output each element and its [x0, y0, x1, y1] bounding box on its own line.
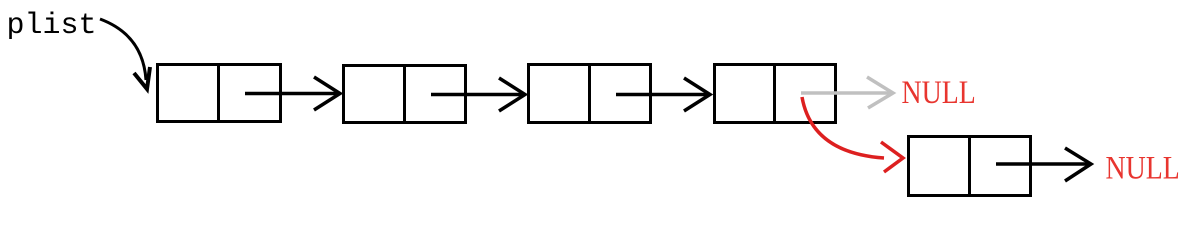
node 2 box: [344, 66, 466, 123]
node 3 box: [529, 65, 651, 123]
node 4 divider: [773, 65, 776, 123]
svg-text:NULL: NULL: [1106, 149, 1180, 186]
node 1 box: [158, 65, 281, 122]
wire: gray arrow node4 to NULL: [801, 91, 892, 95]
wire: arrow node3 to node4: [616, 93, 710, 97]
svg-text:NULL: NULL: [902, 74, 976, 111]
wire: arrow node5 to NULL: [996, 162, 1091, 166]
node 4 box: [715, 65, 836, 123]
node 1 divider: [217, 65, 220, 122]
wire: arrow node2 to node3: [431, 93, 525, 97]
node 5 box: [909, 137, 1031, 196]
node 2 divider: [403, 66, 406, 123]
arrowhead of plist arrow: [134, 67, 150, 89]
node 5 divider: [968, 137, 971, 196]
svg-text:plist: plist: [7, 9, 97, 43]
wire: red curved arrow node4 to node5: [802, 97, 884, 158]
wire: curved arrow from plist to node 1: [100, 19, 146, 80]
wire: arrow node1 to node2: [245, 92, 340, 96]
node 3 divider: [588, 65, 591, 123]
